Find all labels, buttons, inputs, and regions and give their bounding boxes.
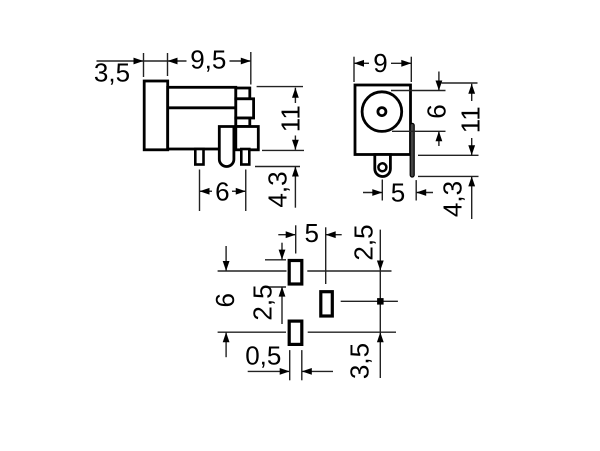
svg-text:2,5: 2,5 [348,224,378,260]
svg-text:6: 6 [210,293,240,307]
svg-text:4,3: 4,3 [263,171,293,207]
svg-text:4,3: 4,3 [437,181,467,217]
svg-text:3,5: 3,5 [344,343,374,379]
svg-text:9,5: 9,5 [190,45,226,75]
svg-text:5: 5 [304,218,318,248]
svg-text:2,5: 2,5 [248,284,278,320]
svg-text:9: 9 [373,48,387,78]
svg-text:11: 11 [455,106,485,133]
svg-text:5: 5 [391,178,405,208]
svg-text:3,5: 3,5 [94,58,130,88]
svg-text:11: 11 [275,105,305,132]
svg-text:0,5: 0,5 [245,341,281,371]
svg-text:6: 6 [421,104,451,118]
svg-text:6: 6 [215,177,229,207]
